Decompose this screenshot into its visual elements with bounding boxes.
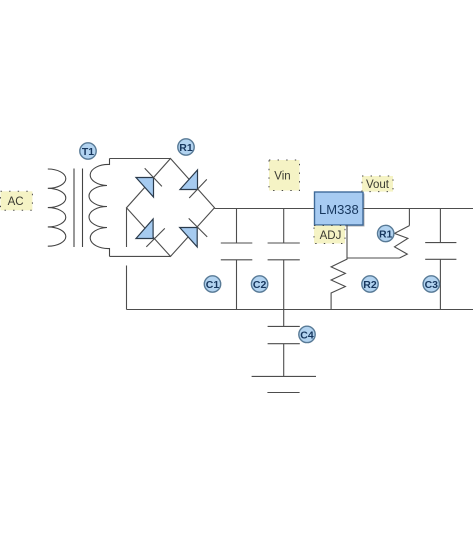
svg-text:C4: C4 xyxy=(300,329,314,341)
label R1 bridge xyxy=(178,139,194,155)
svg-text:R2: R2 xyxy=(363,279,377,291)
wire bridge left corner down lower segment xyxy=(126,266,128,310)
svg-text:AC: AC xyxy=(8,196,24,208)
bridge diode bottom-right xyxy=(180,218,208,247)
capacitor C4 xyxy=(268,310,300,377)
net label ADJ xyxy=(314,226,345,244)
svg-text:C2: C2 xyxy=(253,279,267,291)
transformer T1 secondary winding xyxy=(89,159,110,257)
regulator U1 LM338 shadow xyxy=(316,194,365,227)
bridge rectifier R1 diamond xyxy=(127,159,215,257)
transformer T1 core xyxy=(74,169,83,248)
svg-text:LM338: LM338 xyxy=(319,202,359,217)
net label Vin xyxy=(269,160,300,191)
svg-text:R1: R1 xyxy=(379,229,393,241)
svg-text:Vin: Vin xyxy=(274,171,290,183)
capacitor C3 xyxy=(425,209,456,310)
ground xyxy=(252,376,316,392)
wire Vin rail xyxy=(215,208,315,210)
wire transformer bottom to bridge xyxy=(110,255,171,257)
net label AC xyxy=(1,191,33,210)
svg-text:C1: C1 xyxy=(206,279,220,291)
transformer T1 primary winding xyxy=(48,169,66,246)
svg-text:C3: C3 xyxy=(425,279,439,291)
wire Vout rail xyxy=(363,208,473,210)
resistor R1 xyxy=(395,209,410,259)
wire bottom rail xyxy=(127,309,474,311)
label R2 xyxy=(362,276,378,292)
label R1 resistor xyxy=(378,225,394,241)
bridge diode bottom-left xyxy=(136,219,165,247)
label C3 xyxy=(423,276,439,292)
svg-text:T1: T1 xyxy=(82,146,94,158)
capacitor C2 xyxy=(268,209,300,310)
net label Vout xyxy=(362,176,393,192)
wire ADJ pin xyxy=(346,225,348,258)
label C4 xyxy=(299,326,315,342)
label T1 xyxy=(80,143,96,159)
wire bridge left corner down upper segment xyxy=(126,208,128,247)
regulator U1 LM338 xyxy=(315,192,364,225)
svg-text:R1: R1 xyxy=(179,142,193,154)
wire transformer top to bridge xyxy=(110,158,171,160)
resistor R2 xyxy=(331,258,347,310)
bridge diode top-left xyxy=(136,168,162,197)
svg-text:ADJ: ADJ xyxy=(320,230,342,242)
svg-text:Vout: Vout xyxy=(366,179,390,191)
capacitor C1 xyxy=(221,209,253,310)
label C2 xyxy=(251,276,267,292)
bridge diode top-right xyxy=(180,170,207,198)
label C1 xyxy=(204,276,220,292)
wire ADJ node horizontal xyxy=(347,257,400,259)
